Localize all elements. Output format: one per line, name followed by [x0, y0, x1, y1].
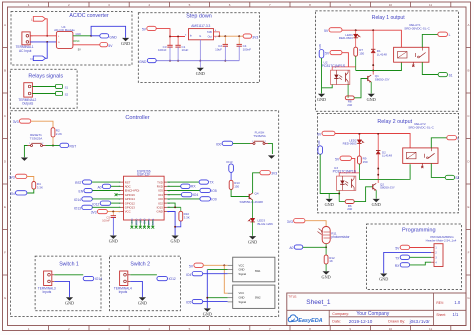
resistor R2 — [51, 128, 55, 137]
transistor Q2 — [372, 184, 374, 189]
wire 5V input — [156, 29, 185, 37]
net flag 5V prog — [400, 245, 409, 249]
wire terminal L to module — [30, 35, 56, 37]
wire C4 lead — [238, 36, 240, 44]
net flag RX prog — [400, 263, 409, 267]
net flag TX prog — [400, 255, 409, 259]
net flag RST reset — [60, 143, 69, 147]
capacitor C5 — [111, 215, 116, 217]
wire 5V prog — [410, 247, 431, 249]
svg-text:B: B — [4, 69, 6, 73]
frame row ticks left — [3, 47, 8, 49]
net flag GND stepdown — [147, 58, 156, 62]
junction d2 top — [377, 133, 379, 135]
wire A0 — [303, 246, 326, 248]
svg-text:IO12: IO12 — [92, 202, 99, 206]
ground symbol prog — [380, 274, 387, 277]
section box AC/DC converter — [11, 12, 132, 66]
wire C2 to rail — [224, 46, 226, 61]
wire flash to gnd — [268, 143, 272, 154]
wire R12 to gnd — [325, 264, 327, 271]
net flag 3V3 esp vcc — [97, 209, 107, 213]
wire R11 to junction — [325, 244, 327, 248]
wire C5 top — [112, 212, 114, 216]
wire TAB-Out tie — [214, 32, 220, 36]
module NC pin stub — [73, 40, 76, 42]
svg-text:RED-0603: RED-0603 — [339, 36, 353, 40]
svg-text:EN: EN — [10, 192, 15, 196]
svg-text:Programming: Programming — [402, 228, 436, 234]
port S1 — [56, 85, 63, 89]
junction C5 — [112, 211, 114, 213]
wire led2 top — [358, 134, 360, 140]
net flag S1 relay1 out — [438, 72, 447, 76]
svg-text:Company:: Company: — [332, 312, 349, 316]
wire 3V3 to R11 — [305, 221, 326, 227]
svg-text:S1: S1 — [65, 85, 69, 89]
svg-text:11: 11 — [429, 327, 432, 331]
svg-text:Out: Out — [208, 35, 212, 39]
net flag 5V relay2 — [322, 131, 335, 135]
wire relay2 COM out — [431, 138, 447, 148]
wire 5V to SW2 VCC — [224, 265, 227, 293]
svg-text:Switch 2: Switch 2 — [130, 261, 150, 267]
svg-text:RST: RST — [70, 145, 77, 149]
wire C1 lead — [177, 37, 179, 46]
svg-text:IO4: IO4 — [193, 193, 198, 197]
svg-text:1: 1 — [252, 141, 253, 143]
capacitor C4 — [237, 43, 242, 45]
svg-text:AD-CD Module: AD-CD Module — [54, 28, 75, 32]
wire button to gnd — [24, 146, 27, 158]
transistor Q4 — [248, 194, 250, 199]
wire terminal4 to IO12 — [130, 274, 157, 276]
svg-text:3V3: 3V3 — [271, 171, 277, 175]
junction sw vcc — [223, 264, 225, 266]
wire opto pin3 to R8 — [347, 85, 349, 98]
wire 5V to opto2 collector — [352, 158, 355, 173]
net flag 3V3 q4 — [260, 171, 271, 175]
wire 3V3 to Q4 emitter — [253, 173, 260, 194]
svg-text:240: 240 — [347, 207, 352, 211]
wire IO5 — [167, 190, 200, 192]
svg-text:E: E — [467, 205, 469, 209]
svg-text:A0: A0 — [289, 246, 293, 250]
svg-text:VCC: VCC — [239, 263, 245, 267]
svg-text:GND: GND — [138, 301, 147, 306]
svg-text:1/1: 1/1 — [453, 312, 459, 317]
wire opto2 top link — [339, 173, 359, 176]
svg-text:B: B — [467, 69, 469, 73]
svg-text:Signal: Signal — [239, 300, 247, 304]
wire 3V3 to R2 — [31, 121, 53, 128]
capacitor C2 — [223, 43, 228, 45]
section box Programming — [367, 224, 462, 290]
svg-text:BLUE 1206: BLUE 1206 — [258, 222, 274, 226]
svg-text:F: F — [4, 251, 6, 255]
resistor R6 — [345, 200, 354, 204]
svg-text:Date:: Date: — [332, 320, 341, 324]
junction C4 top — [238, 35, 240, 37]
wire TX prog — [410, 256, 431, 258]
junction q2 collector — [377, 174, 379, 176]
svg-text:IO14: IO14 — [74, 198, 81, 202]
svg-text:Sheet:: Sheet: — [436, 313, 446, 317]
wire relay1 COM out — [422, 34, 438, 47]
svg-text:TITLE:: TITLE: — [288, 294, 297, 298]
svg-text:Inputs: Inputs — [43, 290, 52, 294]
wire C3 to rail — [169, 47, 171, 61]
svg-text:240: 240 — [347, 103, 352, 107]
relay1 pin nc stub — [412, 62, 414, 65]
svg-text:AC Input: AC Input — [19, 49, 32, 53]
net flag 3V3 EN — [16, 174, 27, 178]
wire EN — [92, 190, 120, 192]
svg-text:MOSI: MOSI — [147, 218, 151, 225]
junction led1 — [355, 29, 357, 31]
svg-text:1.0: 1.0 — [454, 300, 460, 305]
svg-text:LL4148: LL4148 — [377, 52, 387, 56]
net flag 5V stepdown input — [147, 26, 156, 30]
wire diode D1 branch — [372, 30, 374, 49]
module U5 ESP8266 ESP-12F — [124, 176, 165, 220]
svg-text:EasyEDA: EasyEDA — [298, 318, 322, 324]
junction io15 — [174, 206, 176, 208]
junction RST — [52, 145, 54, 147]
ground symbol q1 — [368, 94, 375, 97]
svg-text:GND: GND — [109, 36, 117, 40]
wire opto2 to R6 — [339, 201, 345, 203]
net flag TX esp — [199, 180, 208, 184]
ground symbol C5 — [110, 236, 117, 239]
wire button to RST flag — [46, 145, 60, 147]
svg-text:S8050-J3Y: S8050-J3Y — [380, 186, 395, 190]
svg-text:TS3625A: TS3625A — [253, 134, 266, 138]
svg-text:IO5: IO5 — [318, 44, 322, 49]
svg-text:TAB: TAB — [207, 30, 212, 34]
wire IO5 to SW2 signal — [203, 301, 228, 303]
svg-text:2019-12-10: 2019-12-10 — [349, 319, 373, 324]
wire TX — [167, 181, 199, 183]
junction d2 bottom — [377, 168, 379, 170]
junction C2 top — [224, 35, 226, 37]
resistor R8 — [345, 96, 354, 100]
net flag A0 photo — [294, 245, 303, 249]
svg-text:L: L — [449, 33, 451, 37]
svg-text:AC/DC converter: AC/DC converter — [69, 13, 108, 19]
wire S2 — [32, 93, 55, 95]
wire IO15 to R10 — [167, 206, 181, 208]
svg-text:1K: 1K — [329, 259, 333, 263]
svg-text:GND: GND — [372, 202, 381, 207]
svg-text:j0s3.r1v3r: j0s3.r1v3r — [409, 319, 431, 324]
junction C1 bot — [177, 60, 179, 62]
net flag L — [33, 17, 45, 22]
wire C1 to rail — [177, 47, 179, 61]
wire opto2 pin2 down — [338, 190, 340, 201]
section box Switch 1 — [35, 256, 101, 311]
svg-text:IO4: IO4 — [186, 273, 191, 277]
wire R13 to Q4 base — [231, 189, 249, 196]
svg-text:A: A — [467, 23, 469, 27]
wire C3 lead — [169, 37, 171, 46]
svg-text:Relay 1 output: Relay 1 output — [372, 15, 405, 21]
svg-text:GND: GND — [325, 202, 334, 207]
svg-text:Relays signals: Relays signals — [28, 73, 63, 79]
wire led1 to R7 — [355, 38, 357, 47]
net flag 3V3 stepdown output — [243, 34, 252, 38]
svg-text:Your Company: Your Company — [356, 311, 389, 317]
svg-text:S2: S2 — [65, 92, 69, 96]
wire terminal3 to IO14 — [54, 274, 83, 276]
wire diode D2 branch — [377, 134, 379, 151]
svg-text:EN: EN — [79, 190, 84, 194]
wire regulator output — [219, 35, 243, 37]
svg-text:GND: GND — [121, 41, 130, 46]
capacitor C1 — [175, 44, 180, 46]
wire 5V to opto collector — [342, 53, 348, 67]
svg-text:IO4: IO4 — [317, 140, 321, 145]
net flag IO5 esp — [200, 188, 211, 192]
wire gnd drop relay2 — [328, 194, 330, 199]
regulator U1 AMS1117-3.3 — [189, 29, 214, 40]
svg-text:RST: RST — [75, 181, 82, 185]
wire opto top link — [332, 67, 356, 70]
wire R4 to EN flag — [27, 189, 34, 193]
net flag EN pullup — [16, 191, 27, 195]
wire relay1 NO out — [422, 62, 438, 74]
svg-text:NC: NC — [76, 40, 80, 43]
junction reg gnd — [199, 60, 201, 62]
svg-text:2.2K: 2.2K — [56, 132, 62, 136]
svg-text:100nF: 100nF — [158, 48, 167, 52]
wire R10 to gnd — [175, 221, 181, 227]
wire Q4 to LED3 — [252, 200, 254, 218]
net flag L relay1 out — [438, 32, 448, 36]
wire R6 to Q2 base — [354, 187, 373, 202]
module SW1 — [233, 257, 275, 282]
wire 5V rail relay1 — [342, 30, 401, 47]
wire module GND out — [73, 35, 91, 37]
module SW2 — [233, 285, 275, 308]
diode D1 — [371, 48, 375, 50]
ground symbol photo — [323, 271, 330, 274]
ground symbol sw — [204, 308, 211, 311]
wire vflag relay2 — [320, 154, 339, 193]
wire IO2 to IO15 — [167, 203, 175, 207]
svg-text:REV:: REV: — [436, 301, 444, 305]
svg-text:PC817C(NP1S: PC817C(NP1S — [322, 64, 346, 68]
wire IO13 — [92, 206, 120, 208]
net flag IO14 switch1 — [83, 276, 94, 280]
svg-text:11: 11 — [429, 3, 432, 7]
net flag 3V3 reset — [19, 119, 30, 123]
net flag IO4 esp — [181, 193, 192, 197]
wire 3V3 to R4 — [27, 177, 34, 182]
svg-text:3.3K: 3.3K — [37, 185, 43, 189]
ground symbol switch2 — [139, 297, 146, 300]
wire terminal N to module — [30, 41, 56, 43]
wire A0 — [111, 185, 121, 187]
wire Q2 emitter to gnd — [375, 190, 377, 199]
net flag 5V opto2 — [340, 156, 352, 160]
ESP bottom NC pins — [131, 220, 133, 227]
svg-text:A0: A0 — [97, 186, 101, 190]
resistor R9 — [358, 156, 362, 164]
svg-text:CS0: CS0 — [130, 218, 134, 224]
ground symbol q2 — [373, 199, 380, 202]
svg-text:IO5: IO5 — [211, 189, 216, 193]
svg-text:GND: GND — [239, 268, 245, 272]
junction gnd r10 — [174, 226, 176, 228]
resistor R4 — [32, 182, 36, 190]
frame row ticks right — [466, 47, 471, 49]
wire RX prog — [410, 262, 431, 265]
junction A0 — [325, 246, 327, 248]
svg-text:Header-Male-2.54_1x4: Header-Male-2.54_1x4 — [426, 239, 457, 243]
net flag RX esp — [181, 184, 190, 188]
ground symbol esp — [172, 236, 179, 239]
ground symbol flash — [268, 155, 275, 158]
svg-text:S8050-J3Y: S8050-J3Y — [375, 77, 390, 81]
svg-text:IO10: IO10 — [143, 218, 147, 224]
wire terminal3 to gnd — [54, 281, 69, 297]
junction L — [46, 35, 48, 37]
resistor R10 — [180, 207, 182, 211]
svg-text:10uF: 10uF — [215, 47, 222, 51]
port S2 — [56, 92, 63, 96]
wire LED3 to gnd — [252, 222, 254, 236]
net flag 5V AC/DC — [100, 43, 108, 47]
svg-text:IO5: IO5 — [186, 301, 191, 305]
svg-text:Step down: Step down — [186, 13, 211, 19]
wire SW2 GND — [207, 297, 227, 299]
terminal block TERMINAL2 — [24, 83, 33, 97]
svg-text:150: 150 — [234, 184, 239, 188]
wire IO4 — [167, 194, 181, 196]
ground symbol opto1 — [318, 94, 325, 97]
ground symbol switch1 — [66, 297, 73, 300]
svg-text:3V3: 3V3 — [13, 120, 19, 124]
wire IO0 to button — [233, 142, 250, 144]
svg-text:GND: GND — [196, 71, 205, 76]
svg-text:GND: GND — [171, 239, 180, 244]
svg-text:3V3: 3V3 — [9, 176, 15, 180]
wire GND up to ground — [91, 26, 126, 37]
relay2 pin nc stub — [421, 163, 423, 166]
svg-text:2: 2 — [265, 141, 266, 143]
wire S1 — [32, 86, 55, 88]
junction sw gnd — [206, 297, 208, 299]
junction led2 — [358, 133, 360, 135]
svg-text:Switch 1: Switch 1 — [59, 261, 79, 267]
svg-text:100nF: 100nF — [243, 47, 252, 51]
net flag RST esp — [83, 180, 92, 184]
ground symbol stepdown — [199, 61, 201, 68]
wire RST — [92, 181, 121, 183]
wire R8 to Q1 base — [354, 79, 368, 98]
wire C4 to rail — [238, 46, 240, 61]
AC-DC module U4 — [56, 31, 73, 48]
svg-text:100nF: 100nF — [102, 219, 110, 223]
svg-text:MISO: MISO — [134, 219, 138, 226]
net flag IO4 sw — [192, 272, 203, 276]
photoresistor R11 — [322, 227, 330, 244]
net flag IO5 sw — [192, 299, 203, 303]
ground symbol AC/DC — [122, 38, 129, 41]
svg-text:ESP-12F: ESP-12F — [137, 173, 150, 177]
net flag 3V3 photo — [294, 219, 305, 223]
svg-text:Signal: Signal — [239, 272, 247, 276]
gpio16 nc stub — [117, 194, 121, 196]
svg-text:SRD-05VDC-SL-C: SRD-05VDC-SL-C — [404, 26, 430, 30]
regulator ground pin wire — [199, 40, 201, 61]
junction N — [46, 41, 48, 43]
frame column ticks top — [48, 2, 50, 7]
wire D1 to collector — [372, 53, 374, 74]
resistor R12 — [324, 255, 328, 264]
svg-text:3V3: 3V3 — [252, 35, 258, 39]
svg-text:RED-0603: RED-0603 — [343, 142, 357, 146]
wire vflag down to gnd relay1 — [321, 58, 323, 94]
svg-text:TS3625A: TS3625A — [30, 137, 43, 141]
svg-text:2: 2 — [42, 143, 43, 145]
svg-text:SS8550-Q-46468: SS8550-Q-46468 — [240, 200, 264, 204]
terminal block TERMINAL4 — [120, 271, 128, 286]
wire coil drive — [356, 62, 402, 70]
svg-text:IO13: IO13 — [226, 160, 233, 164]
wire relay2 NO out — [431, 163, 445, 177]
svg-text:3V3: 3V3 — [91, 211, 97, 215]
svg-text:10: 10 — [389, 327, 393, 331]
junction opto2 pin2 — [338, 193, 340, 195]
svg-text:GND: GND — [203, 312, 212, 317]
section box Relays signals — [10, 69, 77, 108]
svg-text:IO0: IO0 — [216, 143, 221, 147]
wire GND to flag — [91, 35, 100, 37]
svg-text:IO14: IO14 — [95, 277, 102, 281]
terminal block TERMINAL3 — [44, 271, 52, 286]
svg-text:Drawn By:: Drawn By: — [388, 320, 405, 324]
svg-text:GND: GND — [379, 277, 388, 282]
junction d1 bottom — [372, 64, 374, 66]
junction C3 bot — [169, 60, 171, 62]
net flag 5V relay1 — [329, 28, 342, 32]
svg-text:SRD-05VDC-SL-C: SRD-05VDC-SL-C — [408, 125, 434, 129]
net flag 5V opto1 — [330, 50, 342, 54]
svg-text:VCC: VCC — [125, 210, 131, 214]
frame column ticks bottom — [48, 326, 50, 331]
net flag IO12 esp — [100, 201, 111, 205]
wire N flag — [46, 42, 48, 58]
svg-text:5V: 5V — [78, 49, 81, 52]
net flag N — [33, 56, 45, 61]
svg-text:AMS1117-3.3: AMS1117-3.3 — [191, 24, 210, 28]
junction C3 top — [169, 36, 171, 38]
wire led2 to R9 — [358, 143, 360, 156]
led LED2 — [357, 140, 361, 143]
svg-text:3.3K: 3.3K — [184, 215, 190, 219]
svg-text:F: F — [468, 251, 470, 255]
wire VCC — [107, 211, 120, 213]
svg-text:10uF: 10uF — [182, 48, 189, 52]
wire module 5V out — [73, 44, 100, 46]
svg-text:GND: GND — [322, 274, 331, 279]
junction C2 bot — [224, 60, 226, 62]
svg-text:RX: RX — [395, 264, 400, 268]
svg-text:A: A — [4, 23, 6, 27]
net flag IO14 esp — [82, 197, 93, 201]
